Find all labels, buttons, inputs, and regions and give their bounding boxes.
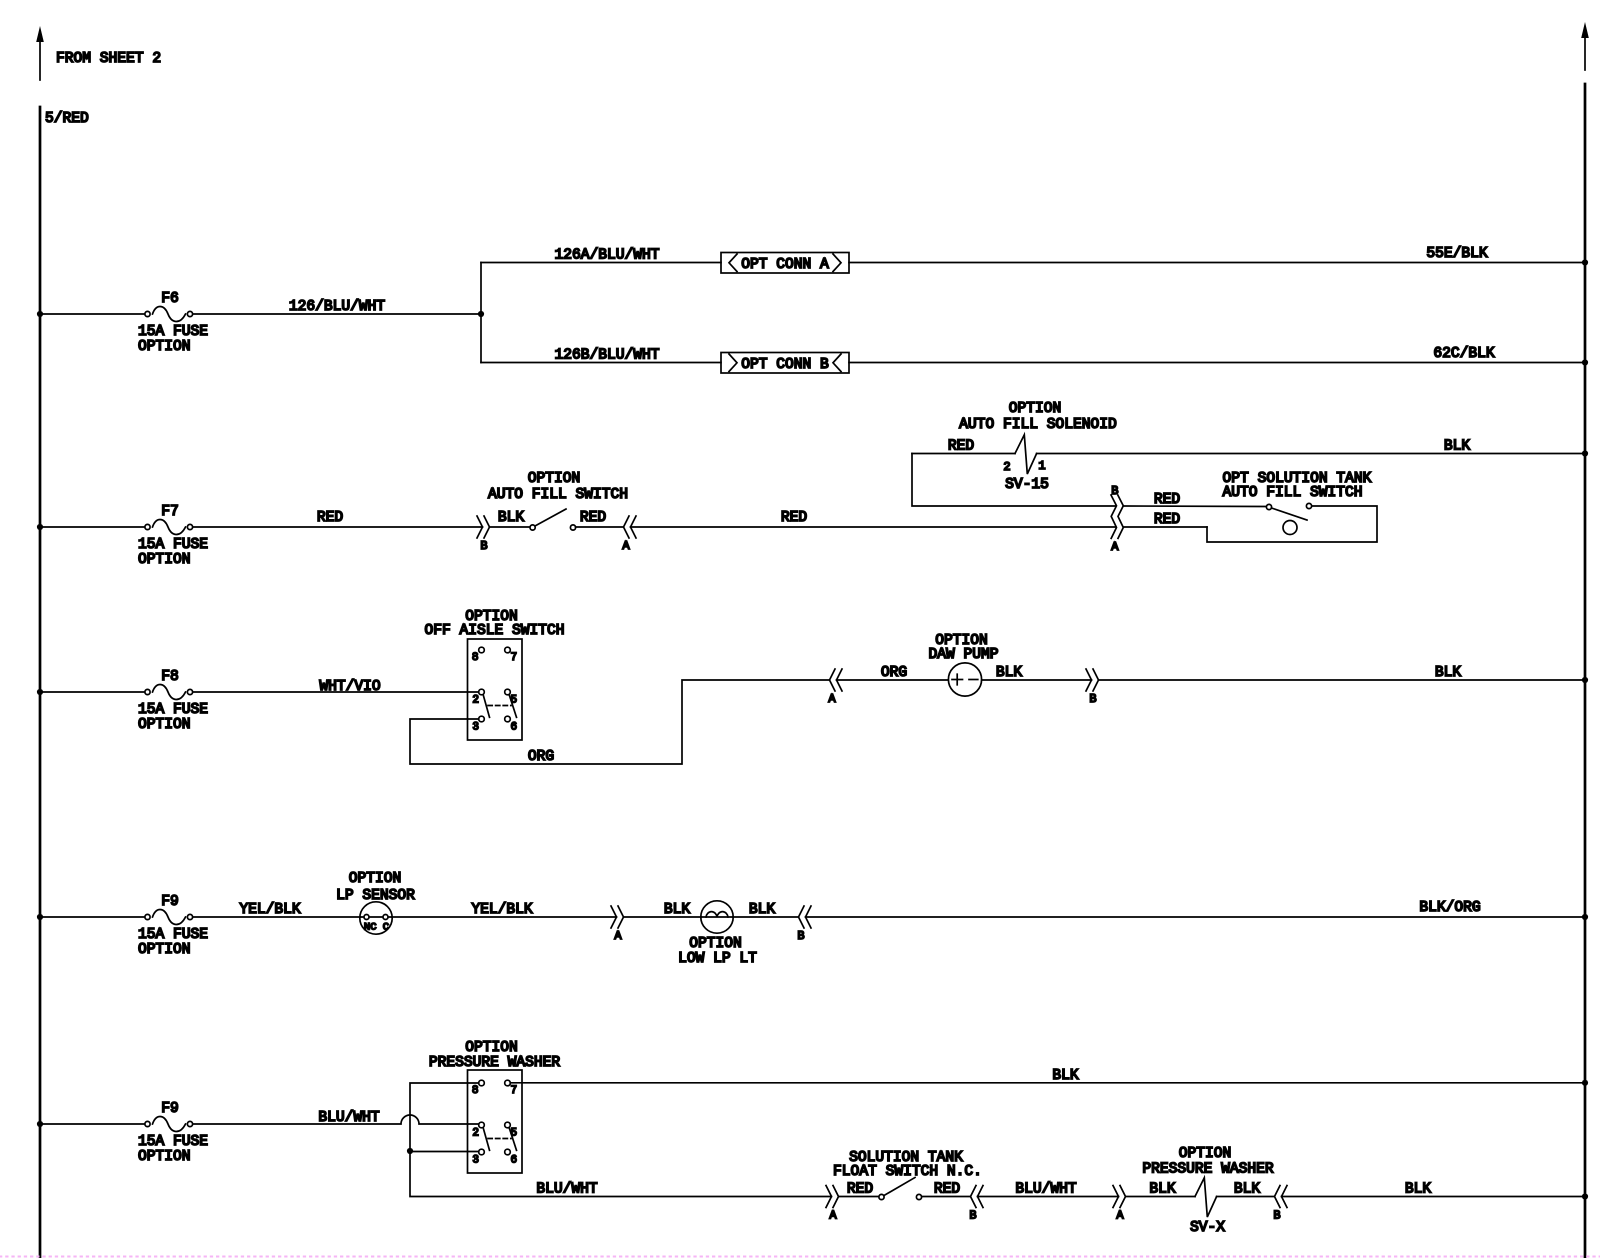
svg-text:A: A [622, 539, 630, 553]
svg-text:A: A [1111, 540, 1119, 554]
wire RED to connector A [576, 526, 624, 528]
svg-text:F6: F6 [161, 291, 179, 307]
node junction left bus F8 [37, 689, 43, 695]
svg-text:B: B [1089, 692, 1096, 706]
svg-text:BLK: BLK [1234, 1182, 1261, 1198]
svg-text:55E/BLK: 55E/BLK [1426, 246, 1488, 262]
svg-text:OPT CONN B: OPT CONN B [741, 357, 829, 373]
fuse F9 [138, 1101, 208, 1165]
fuse F8 [138, 669, 208, 733]
svg-text:OPTION: OPTION [465, 1040, 518, 1056]
svg-text:B: B [480, 539, 487, 553]
connector A [1113, 1186, 1126, 1223]
wire RED to float switch [839, 1196, 880, 1198]
svg-text:OFF AISLE SWITCH: OFF AISLE SWITCH [424, 623, 564, 639]
svg-text:F9: F9 [161, 1101, 179, 1117]
svg-text:A: A [614, 929, 622, 943]
wire RED to connector B [193, 526, 483, 528]
svg-text:BLK: BLK [1405, 1182, 1432, 1198]
wire SV-15 top rung RED [912, 453, 1015, 455]
svg-text:BLU/WHT: BLU/WHT [536, 1182, 598, 1198]
svg-text:126B/BLU/WHT: 126B/BLU/WHT [554, 348, 659, 364]
svg-text:SV-X: SV-X [1190, 1220, 1225, 1236]
svg-text:RED: RED [317, 510, 344, 526]
svg-text:RED: RED [1154, 492, 1181, 508]
wire F6 rung [40, 313, 147, 315]
svg-text:BLK: BLK [1435, 665, 1462, 681]
svg-text:BLU/WHT: BLU/WHT [318, 1110, 380, 1126]
wire F9 rung [40, 916, 147, 918]
solenoid SV-X [1190, 1178, 1225, 1236]
node junction right bus SV15 [1582, 450, 1588, 456]
svg-text:15A FUSE: 15A FUSE [138, 324, 208, 340]
svg-text:RED: RED [847, 1182, 874, 1198]
wire 126A/BLU/WHT [481, 262, 721, 264]
svg-text:F8: F8 [161, 669, 179, 685]
svg-text:FLOAT SWITCH N.C.: FLOAT SWITCH N.C. [833, 1164, 982, 1180]
svg-text:B: B [969, 1209, 976, 1223]
svg-text:OPTION: OPTION [138, 1149, 191, 1165]
wire F8 rung [40, 691, 147, 693]
node junction left bus F9a [37, 914, 43, 920]
wire BLK to right bus [1099, 679, 1586, 681]
wire BLK to right bus [1282, 1196, 1586, 1198]
wire ORG from pin3 [410, 680, 829, 764]
svg-text:WHT/VIO: WHT/VIO [319, 679, 381, 695]
svg-text:BLK: BLK [498, 510, 525, 526]
switch opt solution tank auto fill (float) [1266, 503, 1311, 534]
wire pin7 BLK to right bus [510, 1082, 1585, 1084]
svg-text:AUTO FILL SWITCH: AUTO FILL SWITCH [488, 487, 628, 503]
svg-text:15A FUSE: 15A FUSE [138, 1134, 208, 1150]
svg-text:BLK: BLK [749, 902, 776, 918]
wire BLK to connector B [733, 916, 799, 918]
solenoid SV-15 [1003, 435, 1049, 493]
svg-text:DAW PUMP: DAW PUMP [928, 647, 998, 663]
fuse F6 [138, 291, 208, 355]
svg-text:RED: RED [934, 1182, 961, 1198]
svg-text:3: 3 [472, 722, 479, 734]
wire RED upper to tank switch [1123, 505, 1266, 508]
wire split vertical [480, 263, 482, 363]
wire BLK/ORG to right bus [806, 916, 1586, 918]
svg-text:YEL/BLK: YEL/BLK [239, 902, 301, 918]
left bus arrow to sheet 2 [36, 26, 44, 80]
svg-text:OPTION: OPTION [1179, 1146, 1232, 1162]
wire BLU/WHT [978, 1196, 1119, 1198]
wire 126B/BLU/WHT [481, 362, 721, 364]
connector B [1086, 669, 1099, 706]
wire 55E/BLK [849, 262, 1585, 264]
wire WHT/VIO [193, 691, 479, 693]
connector B [969, 1186, 983, 1223]
node split junction [478, 311, 484, 317]
wire ORG to pump [837, 679, 949, 681]
node junction right bus BLK/ORG [1582, 914, 1588, 920]
node junction right bus 55E [1582, 259, 1588, 265]
connector A [611, 906, 624, 943]
connector OPT CONN A [721, 253, 849, 274]
svg-text:BLK: BLK [1052, 1068, 1079, 1084]
svg-text:OPTION: OPTION [138, 552, 191, 568]
svg-text:B: B [1273, 1209, 1280, 1223]
wire YEL/BLK [193, 916, 360, 918]
svg-text:OPTION: OPTION [1009, 401, 1062, 417]
wire BLK from pump [982, 679, 1092, 681]
svg-text:F7: F7 [161, 504, 179, 520]
node junction right bus 62C [1582, 359, 1588, 365]
svg-text:ORG: ORG [528, 749, 554, 765]
svg-text:BLK/ORG: BLK/ORG [1419, 900, 1480, 916]
wire BLK to right bus [1037, 453, 1585, 455]
wire right bus [1584, 84, 1587, 1258]
wire RED lower [1123, 526, 1207, 528]
svg-text:OPTION: OPTION [349, 871, 402, 887]
wire lower loop step [1207, 506, 1377, 542]
svg-text:RED: RED [1154, 512, 1181, 528]
svg-text:7: 7 [511, 1085, 518, 1097]
connector B [477, 516, 490, 553]
fuse F9 [138, 894, 208, 958]
svg-text:BLU/WHT: BLU/WHT [1015, 1182, 1077, 1198]
svg-text:6: 6 [511, 722, 518, 734]
wire pin3 tap [410, 1152, 831, 1197]
svg-text:15A FUSE: 15A FUSE [138, 537, 208, 553]
wire RED to connector B [922, 1196, 971, 1198]
svg-text:2: 2 [472, 1128, 479, 1140]
svg-text:B: B [1111, 484, 1118, 498]
svg-text:8: 8 [472, 1085, 479, 1097]
switch box PRESSURE WASHER [468, 1070, 523, 1173]
wire left bus [39, 107, 42, 1258]
svg-text:OPTION: OPTION [138, 339, 191, 355]
svg-text:AUTO FILL SWITCH: AUTO FILL SWITCH [1222, 485, 1362, 501]
wire pin8 top BLK [410, 1083, 479, 1148]
svg-text:NC C: NC C [364, 922, 389, 934]
connector B [797, 906, 811, 943]
svg-text:3: 3 [472, 1155, 479, 1167]
svg-text:ORG: ORG [881, 665, 907, 681]
svg-text:PRESSURE WASHER: PRESSURE WASHER [429, 1055, 561, 1071]
svg-text:F9: F9 [161, 894, 179, 910]
svg-text:SV-15: SV-15 [1005, 477, 1049, 493]
svg-text:OPTION: OPTION [138, 717, 191, 733]
connector A [826, 1186, 839, 1223]
lamp LOW LP LT [701, 901, 733, 933]
svg-text:15A FUSE: 15A FUSE [138, 702, 208, 718]
svg-text:A: A [1116, 1209, 1124, 1223]
svg-text:A: A [828, 692, 836, 706]
svg-text:BLK: BLK [1444, 439, 1471, 455]
switch auto fill (N.O. contacts) [530, 509, 576, 530]
wire BLK to lamp [624, 916, 702, 918]
svg-text:BLK: BLK [1149, 1182, 1176, 1198]
node junction right bus bottom [1582, 1193, 1588, 1199]
svg-text:LOW LP LT: LOW LP LT [678, 951, 757, 967]
wire BLU/WHT with hop [193, 1115, 479, 1124]
svg-text:126A/BLU/WHT: 126A/BLU/WHT [554, 248, 659, 264]
connector A [828, 669, 842, 706]
wire F9b rung [40, 1123, 147, 1125]
switch box OFF AISLE [468, 639, 523, 740]
motor DAW pump [948, 663, 981, 696]
node junction left bus F6 [37, 311, 43, 317]
svg-text:B: B [797, 929, 804, 943]
svg-text:RED: RED [580, 510, 607, 526]
svg-text:AUTO FILL SOLENOID: AUTO FILL SOLENOID [959, 417, 1117, 433]
wire YEL/BLK 2 [392, 916, 617, 918]
node junction left bus F9b [37, 1121, 43, 1127]
wire 62C/BLK [849, 362, 1585, 364]
svg-text:PRESSURE WASHER: PRESSURE WASHER [1142, 1162, 1274, 1178]
wire BLK to connector B [1217, 1196, 1275, 1198]
border dotted bottom [0, 1256, 1600, 1258]
svg-text:2: 2 [472, 695, 479, 707]
wire BLK [490, 526, 531, 528]
svg-text:6: 6 [511, 1155, 518, 1167]
node junction right bus washer BLK [1582, 1080, 1588, 1086]
wire SV-15 branch vertical [912, 454, 1116, 507]
node junction right bus pump [1582, 677, 1588, 683]
node junction left bus F7 [37, 524, 43, 530]
connector OPT CONN B [721, 353, 849, 374]
node junction pin3 tap [407, 1148, 413, 1154]
svg-text:2: 2 [1003, 460, 1010, 474]
fuse F7 [138, 504, 208, 568]
wire BLK to SV-X [1126, 1196, 1196, 1198]
svg-text:126/BLU/WHT: 126/BLU/WHT [289, 299, 386, 315]
svg-text:OPTION: OPTION [689, 936, 742, 952]
svg-text:RED: RED [781, 510, 808, 526]
svg-text:FROM SHEET 2: FROM SHEET 2 [56, 51, 161, 67]
switch solution tank float N.C. [879, 1178, 922, 1200]
wire 126/BLU/WHT [193, 313, 481, 315]
svg-text:5/RED: 5/RED [45, 111, 89, 127]
svg-text:RED: RED [948, 439, 975, 455]
svg-text:BLK: BLK [996, 665, 1023, 681]
svg-text:7: 7 [511, 652, 518, 664]
connector B/A double squiggle [1111, 484, 1123, 554]
wire F7 rung [40, 526, 147, 528]
svg-text:OPTION: OPTION [138, 942, 191, 958]
connector A [622, 516, 636, 553]
svg-text:62C/BLK: 62C/BLK [1433, 346, 1495, 362]
sensor LP (pressure switch) [360, 902, 392, 934]
svg-text:15A FUSE: 15A FUSE [138, 927, 208, 943]
svg-text:8: 8 [472, 652, 479, 664]
connector B [1273, 1186, 1287, 1223]
svg-text:OPTION: OPTION [528, 471, 581, 487]
right bus arrow up [1581, 22, 1589, 70]
svg-text:OPT CONN A: OPT CONN A [741, 257, 829, 273]
svg-text:A: A [829, 1209, 837, 1223]
svg-text:BLK: BLK [664, 902, 691, 918]
svg-text:1: 1 [1038, 459, 1045, 473]
svg-text:YEL/BLK: YEL/BLK [471, 902, 533, 918]
wire RED long [631, 526, 1116, 528]
